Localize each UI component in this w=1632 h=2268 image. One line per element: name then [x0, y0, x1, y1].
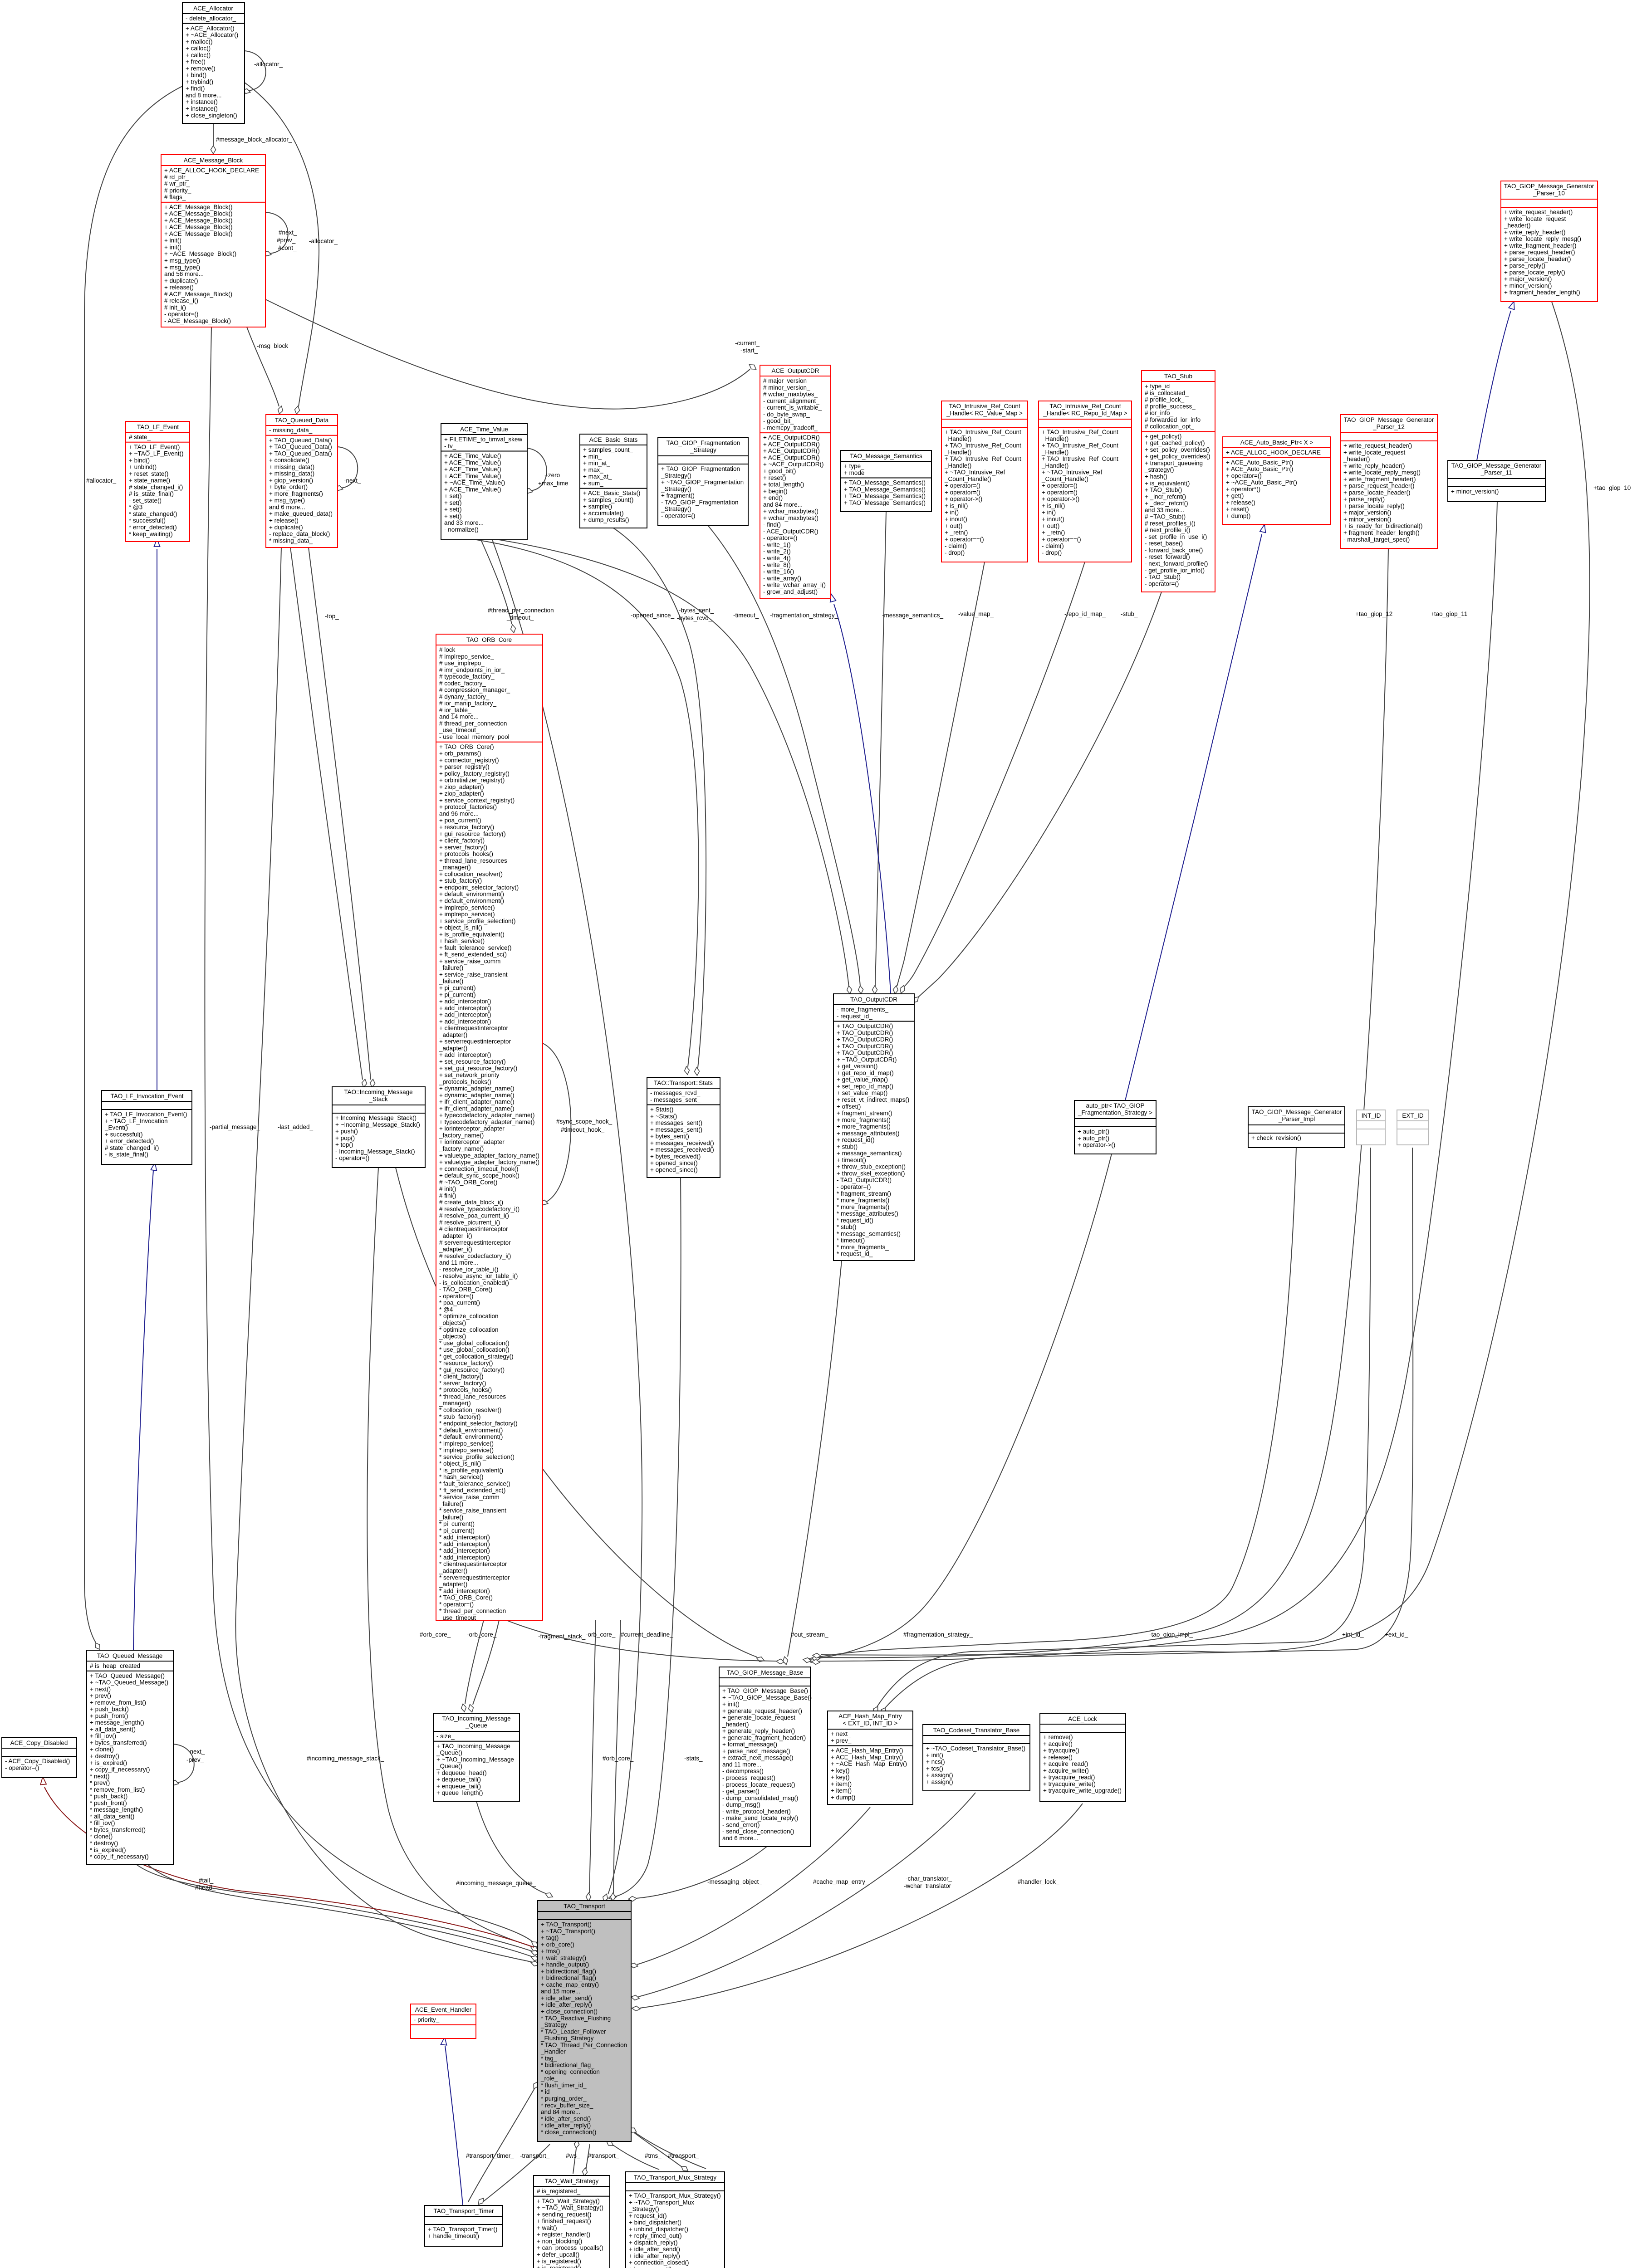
svg-text:+ bind_dispatcher(): + bind_dispatcher() [629, 2219, 681, 2226]
svg-text:+ next_: + next_ [831, 1730, 851, 1737]
svg-text:+ ifr_client_adapter_name(): + ifr_client_adapter_name() [439, 1099, 514, 1105]
class Incoming_Message_Stack [332, 1087, 425, 1168]
class TAO_Transport_Mux_Strategy [626, 2172, 725, 2268]
svg-text:INT_ID: INT_ID [1362, 1112, 1381, 1119]
svg-text:* more_fragments(): * more_fragments() [837, 1197, 889, 1204]
svg-text:* resource_factory(): * resource_factory() [439, 1360, 493, 1367]
svg-text:+ service_raise_transient: + service_raise_transient [439, 971, 508, 978]
class TAO_Intrusive_Value [941, 401, 1028, 562]
svg-text:+ ~Stats(): + ~Stats() [650, 1113, 677, 1119]
edge: Parser_11 to Parser_10 (inherit) [1477, 311, 1511, 460]
svg-text:-value_map_: -value_map_ [958, 611, 994, 617]
svg-text:+ iorinterceptor_adapter: + iorinterceptor_adapter [439, 1139, 505, 1145]
svg-text:* message_semantics(): * message_semantics() [837, 1230, 901, 1237]
svg-text:+ missing_data(): + missing_data() [269, 470, 314, 477]
svg-text:+ connection_timeout_hook(): + connection_timeout_hook() [439, 1165, 519, 1172]
edge: ACE_Time_Value to Transport_Stats -opened_since_ [476, 540, 699, 1067]
svg-text:# rd_ptr_: # rd_ptr_ [164, 174, 189, 181]
class TAO_LF_Event [126, 421, 190, 542]
svg-text:+ assign(): + assign() [926, 1779, 953, 1785]
svg-text:* successful(): * successful() [129, 517, 166, 524]
svg-text:+ TAO_OutputCDR(): + TAO_OutputCDR() [837, 1029, 893, 1036]
svg-text:#sync_scope_hook_: #sync_scope_hook_ [556, 1118, 613, 1125]
class TAO_Stub [1142, 371, 1215, 592]
svg-text:#message_block_allocator_: #message_block_allocator_ [216, 136, 292, 143]
svg-text:+ connector_registry(): + connector_registry() [439, 757, 499, 763]
svg-text:+ check_revision(): + check_revision() [1251, 1134, 1301, 1141]
svg-text:* copy_if_necessary(): * copy_if_necessary() [90, 1853, 149, 1860]
svg-text:# resolve_picurrent_i(): # resolve_picurrent_i() [439, 1219, 500, 1226]
edge: ACE_Message_Block to TAO_Queued_Data -msg_block_ [247, 327, 279, 406]
edge: TAO_Transport to ACE_Copy_Disabled (inherit) [44, 1787, 534, 1947]
svg-text:+ parse_next_message(): + parse_next_message() [722, 1748, 790, 1755]
svg-text:+ TAO_Intrusive_Ref_Count: + TAO_Intrusive_Ref_Count [1042, 429, 1118, 435]
svg-text:# major_version_: # major_version_ [763, 377, 810, 384]
svg-text:TAO_Transport_Mux_Strategy: TAO_Transport_Mux_Strategy [634, 2174, 717, 2181]
svg-text:TAO_GIOP_Message_Generator: TAO_GIOP_Message_Generator [1344, 416, 1434, 423]
svg-text:# init_i(): # init_i() [164, 304, 186, 311]
svg-text:* is_profile_equivalent(): * is_profile_equivalent() [439, 1467, 503, 1474]
class TAO_GIOP_Message_Base [719, 1667, 812, 1847]
svg-text:+ parse_request_header(): + parse_request_header() [1343, 483, 1414, 489]
svg-text:#prev_: #prev_ [277, 237, 296, 244]
svg-text:-timeout_: -timeout_ [733, 612, 759, 619]
svg-text:* optimize_collocation: * optimize_collocation [439, 1326, 499, 1333]
svg-text:+ set_value_map(): + set_value_map() [837, 1090, 887, 1096]
svg-text:+ bytes_sent(): + bytes_sent() [650, 1133, 689, 1140]
svg-text:* timeout(): * timeout() [837, 1237, 865, 1244]
svg-text:+ parser_registry(): + parser_registry() [439, 763, 490, 770]
svg-text:+ ACE_Message_Block(): + ACE_Message_Block() [164, 224, 232, 230]
svg-text:_Strategy(): _Strategy() [661, 485, 691, 492]
svg-text:+ prev(): + prev() [90, 1692, 111, 1699]
svg-text:+ policy_factory_registry(): + policy_factory_registry() [439, 770, 510, 777]
svg-text:* fragment_stream(): * fragment_stream() [837, 1190, 891, 1197]
svg-text:ACE_Auto_Basic_Ptr< X >: ACE_Auto_Basic_Ptr< X > [1240, 439, 1313, 446]
svg-text:* add_interceptor(): * add_interceptor() [439, 1554, 490, 1561]
svg-text:* poa_current(): * poa_current() [439, 1300, 480, 1306]
svg-text:_use_timeout_: _use_timeout_ [439, 1614, 480, 1621]
svg-text:+ ACE_Time_Value(): + ACE_Time_Value() [444, 459, 501, 466]
svg-text:+ tag(): + tag() [541, 1935, 559, 1941]
svg-text:+ remove_from_list(): + remove_from_list() [90, 1699, 146, 1706]
svg-text:* optimize_collocation: * optimize_collocation [439, 1313, 499, 1320]
edge: TAO_GIOP_Message_Base to Parser_Impl -tao_giop_impl_ [814, 1148, 1296, 1658]
edge: TAO_Transport_Mux_Strategy to TAO_Transport #transport_ [634, 2133, 686, 2170]
svg-text:+ default_environment(): + default_environment() [439, 898, 504, 904]
svg-text:+ Incoming_Message_Stack(): + Incoming_Message_Stack() [335, 1114, 417, 1121]
svg-text:#cont_: #cont_ [278, 244, 297, 251]
svg-text:+ clientrequestinterceptor: + clientrequestinterceptor [439, 1025, 508, 1031]
svg-text:TAO_Wait_Strategy: TAO_Wait_Strategy [545, 2178, 599, 2185]
svg-text:- grow_and_adjust(): - grow_and_adjust() [763, 588, 818, 595]
class ACE_Hash_Map_Entry [828, 1711, 913, 1804]
svg-text:* purging_order_: * purging_order_ [541, 2095, 587, 2102]
svg-text:+ ACE_Basic_Stats(): + ACE_Basic_Stats() [583, 490, 640, 497]
svg-text:_Strategy(): _Strategy() [628, 2206, 659, 2213]
class ACE_Event_Handler [411, 2004, 476, 2038]
svg-text:TAO_LF_Invocation_Event: TAO_LF_Invocation_Event [110, 1093, 183, 1100]
svg-text:_protocols_hooks(): _protocols_hooks() [439, 1078, 491, 1085]
svg-text:TAO_Codeset_Translator_Base: TAO_Codeset_Translator_Base [933, 1727, 1020, 1734]
svg-text:+ endpoint_selector_factory(): + endpoint_selector_factory() [439, 884, 519, 891]
svg-text:+ calloc(): + calloc() [186, 45, 211, 52]
svg-text:+ TAO_Intrusive_Ref_Count: + TAO_Intrusive_Ref_Count [1042, 442, 1118, 449]
svg-text:+ mode_: + mode_ [844, 469, 868, 476]
svg-text:+ prev_: + prev_ [831, 1737, 852, 1744]
svg-text:+ TAO_Message_Semantics(): + TAO_Message_Semantics() [844, 479, 926, 486]
edge: TAO_Incoming_Message_Queue to TAO_Transport #incoming_message_queue_ [476, 1801, 545, 1893]
svg-text:+ sum_: + sum_ [583, 480, 603, 487]
svg-text:* add_interceptor(): * add_interceptor() [439, 1534, 490, 1541]
svg-text:+ instance(): + instance() [186, 105, 218, 112]
svg-text:* TAO_Reactive_Flushing: * TAO_Reactive_Flushing [541, 2015, 611, 2022]
svg-text:+ idle_after_reply(): + idle_after_reply() [541, 2001, 592, 2008]
svg-text:+ defer_upcall(): + defer_upcall() [537, 2251, 579, 2258]
svg-text:* hash_service(): * hash_service() [439, 1474, 484, 1481]
svg-text:* message_length(): * message_length() [90, 1806, 143, 1813]
svg-text:+ bytes_received(): + bytes_received() [650, 1153, 701, 1160]
svg-text:* implrepo_service(): * implrepo_service() [439, 1440, 494, 1447]
svg-text:+ write_fragment_header(): + write_fragment_header() [1504, 242, 1576, 249]
edge: ACE_Time_Value to TAO_OutputCDR -timeout_ [499, 540, 849, 987]
svg-text:-messaging_object_: -messaging_object_ [707, 1878, 762, 1885]
svg-text:+ fill_iov(): + fill_iov() [90, 1733, 116, 1740]
svg-text:+ duplicate(): + duplicate() [164, 277, 198, 284]
svg-text:_objects(): _objects() [439, 1320, 466, 1326]
svg-text:- process_locate_request(): - process_locate_request() [722, 1781, 795, 1788]
svg-text:+ queue_length(): + queue_length() [436, 1789, 483, 1796]
svg-text:+ get_value_map(): + get_value_map() [837, 1076, 888, 1083]
svg-text:+ ifr_client_adapter_name(): + ifr_client_adapter_name() [439, 1105, 514, 1112]
svg-text:# state_: # state_ [129, 434, 151, 440]
svg-text:+ acquire_read(): + acquire_read() [1043, 1760, 1088, 1767]
svg-text:_strategy(): _strategy() [1144, 466, 1174, 473]
svg-text:TAO_Intrusive_Ref_Count: TAO_Intrusive_Ref_Count [949, 403, 1020, 410]
edge: TAO_GIOP_Message_Base to Parser_11 +tao_giop_11 [819, 502, 1497, 1661]
svg-text:+ ~ACE_Time_Value(): + ~ACE_Time_Value() [444, 479, 505, 486]
svg-text:+ samples_count_: + samples_count_ [583, 446, 633, 453]
svg-text:#tms_: #tms_ [645, 2152, 662, 2159]
svg-text:# use_implrepo_: # use_implrepo_ [439, 660, 485, 667]
svg-text:+ TAO_Incoming_Message: + TAO_Incoming_Message [436, 1743, 510, 1750]
svg-text:_objects(): _objects() [439, 1333, 466, 1340]
svg-text:* next(): * next() [90, 1773, 110, 1779]
svg-text:+ pi_current(): + pi_current() [439, 991, 476, 998]
svg-text:+ operator->(): + operator->() [945, 496, 982, 503]
svg-text:+ make_queued_data(): + make_queued_data() [269, 510, 333, 517]
svg-text:# fini(): # fini() [439, 1192, 456, 1199]
svg-text:+ TAO_Message_Semantics(): + TAO_Message_Semantics() [844, 486, 926, 493]
svg-text:+ ~ACE_Message_Block(): + ~ACE_Message_Block() [164, 250, 236, 257]
edge: TAO_Transport_Timer to TAO_Transport -transport_ [482, 2144, 550, 2203]
svg-text:+ operator=(): + operator=() [945, 489, 980, 496]
svg-text:+ gui_resource_factory(): + gui_resource_factory() [439, 831, 506, 837]
svg-text:+ opened_since(): + opened_since() [650, 1167, 698, 1173]
svg-text:+ service_context_registry(): + service_context_registry() [439, 797, 515, 804]
svg-text:+ push_back(): + push_back() [90, 1706, 129, 1713]
svg-text:+ key(): + key() [831, 1774, 850, 1781]
svg-text:TAO_OutputCDR: TAO_OutputCDR [850, 996, 897, 1003]
svg-text:-fragmentation_strategy_: -fragmentation_strategy_ [770, 612, 838, 619]
svg-text:- operator=(): - operator=() [1145, 580, 1179, 587]
svg-text:+ protocol_factories(): + protocol_factories() [439, 804, 497, 811]
svg-text:+ operator==(): + operator==() [1042, 536, 1081, 543]
svg-text:+ release(): + release() [1226, 499, 1255, 506]
svg-text:_Parser_Impl: _Parser_Impl [1278, 1116, 1315, 1123]
svg-text:+ implrepo_service(): + implrepo_service() [439, 904, 495, 911]
svg-text:-partial_message_: -partial_message_ [210, 1124, 260, 1130]
svg-text:# reset_profiles_i(): # reset_profiles_i() [1145, 520, 1196, 527]
edge: TAO_Queued_Message to TAO_Transport #head_ [147, 1864, 533, 1957]
svg-text:_Handle< RC_Repo_Id_Map >: _Handle< RC_Repo_Id_Map > [1043, 410, 1127, 417]
svg-text:# flags_: # flags_ [164, 194, 186, 200]
class auto_ptr [1074, 1100, 1156, 1154]
edge: TAO_GIOP_Message_Base to TAO_OutputCDR #out_stream_ [788, 1261, 842, 1657]
svg-text:_header(): _header() [722, 1721, 749, 1728]
svg-text:+ close_singleton(): + close_singleton() [186, 112, 237, 119]
svg-text:+ byte_order(): + byte_order() [269, 484, 308, 490]
svg-text:#current_deadline_: #current_deadline_ [621, 1631, 673, 1638]
svg-text:+ ACE_Auto_Basic_Ptr(): + ACE_Auto_Basic_Ptr() [1226, 459, 1293, 466]
svg-text:_Handle(): _Handle() [1041, 462, 1068, 469]
svg-text:_failure(): _failure() [439, 978, 463, 985]
svg-text:_Handler: _Handler [540, 2048, 566, 2055]
edge: ACE_Allocator to TAO_Queued_Message #allocator_ [84, 86, 182, 1642]
svg-text:+ write_request_header(): + write_request_header() [1343, 442, 1412, 449]
svg-text:+ type_id: + type_id [1145, 383, 1170, 390]
svg-text:+ ACE_Auto_Basic_Ptr(): + ACE_Auto_Basic_Ptr() [1226, 466, 1293, 473]
class TAO_Transport_Timer [425, 2205, 503, 2246]
svg-text:+ reply_timed_out(): + reply_timed_out() [629, 2233, 682, 2239]
svg-text:+ TAO_Queued_Message(): + TAO_Queued_Message() [90, 1672, 165, 1679]
svg-text:# ior_manip_factory_: # ior_manip_factory_ [439, 700, 497, 707]
svg-text:ACE_Copy_Disabled: ACE_Copy_Disabled [10, 1740, 68, 1746]
svg-text:+ is_ready_for_bidirectional(): + is_ready_for_bidirectional() [1343, 523, 1422, 529]
svg-text:+ FILETIME_to_timval_skew: + FILETIME_to_timval_skew [444, 436, 522, 443]
svg-text:+ default_environment(): + default_environment() [439, 891, 504, 898]
svg-text:+ ~TAO_Intrusive_Ref: + ~TAO_Intrusive_Ref [1042, 469, 1103, 476]
svg-text:# state_changed_i(): # state_changed_i() [105, 1144, 159, 1151]
svg-text:_timeout_: _timeout_ [506, 614, 534, 621]
class TAO_Transport [538, 1901, 631, 2141]
class ACE_Message_Block [161, 155, 265, 327]
svg-text:- reset_forward(): - reset_forward() [1145, 553, 1190, 560]
svg-text:+ add_interceptor(): + add_interceptor() [439, 1018, 491, 1025]
svg-text:* more_fragments(): * more_fragments() [837, 1203, 889, 1210]
svg-text:- do_byte_swap_: - do_byte_swap_ [763, 411, 810, 418]
svg-text:- missing_data_: - missing_data_ [269, 427, 313, 434]
svg-text:+ Stats(): + Stats() [650, 1106, 673, 1113]
svg-text:and 11 more...: and 11 more... [722, 1761, 761, 1768]
svg-text:- tv_: - tv_ [444, 443, 456, 450]
class TAO_Codeset_Translator_Base [923, 1725, 1030, 1791]
edge: TAO_Queued_Data to Incoming_Message_Stack 2 [309, 547, 371, 1080]
edge: ACE_Hash_Map_Entry to INT_ID +int_id_ [877, 1148, 1371, 1707]
edge: TAO_GIOP_Message_Base to TAO_Transport -messaging_object_ [636, 1847, 767, 1898]
svg-text:+ auto_ptr(): + auto_ptr() [1078, 1135, 1109, 1142]
svg-text:+ calloc(): + calloc() [186, 52, 211, 59]
svg-text:+ TAO_OutputCDR(): + TAO_OutputCDR() [837, 1036, 893, 1043]
svg-text:+ fragment_header_length(): + fragment_header_length() [1504, 289, 1580, 296]
svg-text:+ finished_request(): + finished_request() [537, 2218, 591, 2224]
svg-text:+ set(): + set() [444, 493, 462, 499]
svg-text:+ dequeue_head(): + dequeue_head() [436, 1769, 487, 1776]
svg-text:#orb_core_: #orb_core_ [603, 1755, 634, 1762]
svg-text:+ is_nil(): + is_nil() [1042, 503, 1065, 509]
svg-text:+ write_reply_header(): + write_reply_header() [1343, 462, 1405, 469]
svg-text:+ dump_results(): + dump_results() [583, 517, 629, 523]
svg-text:+ throw_skel_exception(): + throw_skel_exception() [837, 1170, 905, 1177]
svg-text:* endpoint_selector_factory(): * endpoint_selector_factory() [439, 1420, 518, 1427]
svg-text:+ _decr_refcnt(): + _decr_refcnt() [1145, 500, 1188, 507]
svg-text:and 84 more...: and 84 more... [541, 2109, 580, 2116]
svg-text:* add_interceptor(): * add_interceptor() [439, 1588, 490, 1594]
svg-text:+ dump(): + dump() [831, 1794, 855, 1801]
svg-text:+ TAO_Wait_Strategy(): + TAO_Wait_Strategy() [537, 2198, 600, 2204]
svg-text:+ ACE_Time_Value(): + ACE_Time_Value() [444, 486, 501, 493]
svg-text:+ bind(): + bind() [186, 72, 206, 78]
svg-text:+ orb_core(): + orb_core() [541, 1941, 574, 1948]
svg-text:+ add_interceptor(): + add_interceptor() [439, 998, 491, 1005]
svg-text:+ set_policy_overrides(): + set_policy_overrides() [1145, 446, 1210, 453]
svg-text:+ TAO_Queued_Data(): + TAO_Queued_Data() [269, 444, 332, 450]
svg-text:-stub_: -stub_ [1121, 611, 1138, 617]
svg-text:# ~TAO_ORB_Core(): # ~TAO_ORB_Core() [439, 1179, 497, 1186]
edge: TAO_Transport corner to Mux [631, 2130, 706, 2169]
svg-text:# ~TAO_Stub(): # ~TAO_Stub() [1145, 513, 1186, 520]
svg-text:- priority_: - priority_ [414, 2016, 440, 2023]
svg-text:-stats_: -stats_ [684, 1755, 703, 1762]
svg-text:- send_close_connection(): - send_close_connection() [722, 1828, 794, 1835]
svg-text:#transport_: #transport_ [588, 2152, 619, 2159]
svg-text:+ TAO_GIOP_Fragmentation: + TAO_GIOP_Fragmentation [661, 465, 740, 472]
svg-text:* get_collocation_strategy(): * get_collocation_strategy() [439, 1353, 514, 1360]
svg-text:_factory_name(): _factory_name() [439, 1145, 484, 1152]
svg-text:+ reset(): + reset() [1226, 506, 1249, 513]
svg-text:_use_timeout_: _use_timeout_ [439, 727, 480, 733]
svg-text:+ has_request(): + has_request() [629, 2266, 672, 2268]
svg-text:+ minor_version(): + minor_version() [1343, 516, 1391, 523]
class ACE_Basic_Stats [580, 434, 647, 528]
svg-text:+ ~TAO_Transport(): + ~TAO_Transport() [541, 1928, 595, 1935]
svg-text:+ ~TAO_LF_Event(): + ~TAO_LF_Event() [129, 450, 184, 457]
svg-text:+ ziop_adapter(): + ziop_adapter() [439, 783, 484, 790]
svg-text:* fault_tolerance_service(): * fault_tolerance_service() [439, 1481, 510, 1487]
svg-text:+ TAO_ORB_Core(): + TAO_ORB_Core() [439, 743, 494, 750]
svg-text:- next_forward_profile(): - next_forward_profile() [1145, 560, 1208, 567]
svg-text:+ poa_current(): + poa_current() [439, 817, 481, 824]
svg-text:#allocator_: #allocator_ [86, 477, 117, 484]
svg-text:+ TAO_LF_Event(): + TAO_LF_Event() [129, 444, 180, 450]
svg-text:+ register_handler(): + register_handler() [537, 2231, 590, 2238]
svg-text:* service_raise_transient: * service_raise_transient [439, 1507, 506, 1514]
edge: ACE_Allocator to TAO_Queued_Data -allocator_ [245, 83, 319, 406]
svg-text:-msg_block_: -msg_block_ [257, 342, 292, 349]
svg-text:and 33 more...: and 33 more... [444, 519, 484, 526]
svg-text:_adapter(): _adapter() [439, 1568, 467, 1574]
svg-text:+ pop(): + pop() [335, 1134, 355, 1141]
svg-text:+ all_data_sent(): + all_data_sent() [90, 1726, 136, 1733]
svg-text:# minor_version_: # minor_version_ [763, 384, 810, 391]
svg-text:-allocator_: -allocator_ [309, 238, 338, 244]
svg-text:+ generate_reply_header(): + generate_reply_header() [722, 1728, 795, 1735]
svg-text:+ msg_type(): + msg_type() [164, 264, 200, 271]
class TAO_GIOP_Fragmentation_Strategy [658, 438, 748, 525]
svg-text:+ item(): + item() [831, 1780, 852, 1787]
svg-text:+ TAO_OutputCDR(): + TAO_OutputCDR() [837, 1050, 893, 1056]
svg-text:_failure(): _failure() [439, 1514, 463, 1520]
svg-text:_adapter(): _adapter() [439, 1045, 467, 1051]
svg-text:+ get_policy(): + get_policy() [1145, 433, 1181, 440]
svg-text:+ server_factory(): + server_factory() [439, 844, 487, 850]
svg-text:+ ACE_Hash_Map_Entry(): + ACE_Hash_Map_Entry() [831, 1747, 903, 1754]
svg-text:+ operator*(): + operator*() [1226, 486, 1260, 493]
svg-text:+ reset_vt_indirect_maps(): + reset_vt_indirect_maps() [837, 1096, 909, 1103]
svg-text:# forwarded_ior_info_: # forwarded_ior_info_ [1145, 416, 1204, 423]
svg-text:- ACE_OutputCDR(): - ACE_OutputCDR() [763, 528, 818, 535]
svg-text:and 33 more...: and 33 more... [1145, 507, 1184, 513]
svg-text:- write_protocol_header(): - write_protocol_header() [722, 1808, 791, 1815]
svg-text:+ wait_strategy(): + wait_strategy() [541, 1955, 586, 1961]
svg-text:+ good_bit(): + good_bit() [763, 468, 796, 474]
svg-text:+ stub(): + stub() [837, 1143, 858, 1150]
svg-text:+ minor_version(): + minor_version() [1504, 283, 1552, 289]
edge: Incoming_Message_Stack to TAO_Transport #incoming_message_stack_ [367, 1168, 532, 1946]
svg-text:_Handle(): _Handle() [1041, 449, 1068, 455]
class ACE_Auto_Basic_Ptr [1223, 437, 1330, 524]
svg-text:+ bytes_transferred(): + bytes_transferred() [90, 1740, 147, 1746]
svg-text:- ACE_Copy_Disabled(): - ACE_Copy_Disabled() [5, 1758, 70, 1765]
svg-text:- operator=(): - operator=() [5, 1765, 39, 1771]
svg-text:+ ACE_Message_Block(): + ACE_Message_Block() [164, 217, 232, 224]
svg-text:+ dispatch_reply(): + dispatch_reply() [629, 2239, 678, 2246]
svg-text:- is_state_final(): - is_state_final() [105, 1151, 148, 1158]
svg-text:+ idle_after_send(): + idle_after_send() [629, 2246, 680, 2253]
svg-text:+ samples_count(): + samples_count() [583, 496, 633, 503]
svg-text:+ bidirectional_flag(): + bidirectional_flag() [541, 1968, 596, 1975]
svg-text:+zero: +zero [544, 472, 560, 479]
svg-text:+ extract_next_message(): + extract_next_message() [722, 1755, 793, 1761]
svg-text:# is_state_final(): # is_state_final() [129, 490, 174, 497]
svg-text:- get_profile_ior_info(): - get_profile_ior_info() [1145, 567, 1205, 574]
svg-text:# profile_lock_: # profile_lock_ [1145, 396, 1185, 403]
edge: TAO_OutputCDR to ACE_OutputCDR (inherit) [834, 604, 891, 993]
svg-text:#out_stream_: #out_stream_ [791, 1631, 828, 1638]
svg-text:_Stack: _Stack [368, 1096, 388, 1103]
svg-text:_manager(): _manager() [439, 1400, 471, 1407]
class Transport_Stats [647, 1077, 720, 1178]
svg-text:+ protocols_hooks(): + protocols_hooks() [439, 850, 493, 857]
svg-text:* is_expired(): * is_expired() [90, 1847, 126, 1853]
svg-text:+ fragment(): + fragment() [661, 492, 695, 499]
svg-text:+ connection_closed(): + connection_closed() [629, 2259, 689, 2266]
svg-text:+ parse_locate_reply(): + parse_locate_reply() [1504, 269, 1565, 276]
svg-text:- set_state(): - set_state() [129, 497, 162, 504]
svg-text:* pi_current(): * pi_current() [439, 1520, 475, 1527]
svg-text:+ tcs(): + tcs() [926, 1765, 943, 1772]
svg-text:TAO_GIOP_Message_Generator: TAO_GIOP_Message_Generator [1504, 183, 1594, 190]
svg-text:* destroy(): * destroy() [90, 1840, 118, 1847]
edge: TAO_Transport to TAO_Codeset_Translator_Base -char_translator_ -wchar_translator_ [638, 1793, 975, 1997]
class ACE_Copy_Disabled [2, 1737, 77, 1778]
svg-text:+ bidirectional_flag(): + bidirectional_flag() [541, 1975, 596, 1981]
svg-text:* pi_current(): * pi_current() [439, 1527, 475, 1534]
svg-text:+ accumulate(): + accumulate() [583, 510, 624, 517]
svg-text:* serverrequestinterceptor: * serverrequestinterceptor [439, 1574, 510, 1581]
svg-text:and 96 more...: and 96 more... [439, 811, 479, 817]
svg-text:* default_environment(): * default_environment() [439, 1433, 503, 1440]
